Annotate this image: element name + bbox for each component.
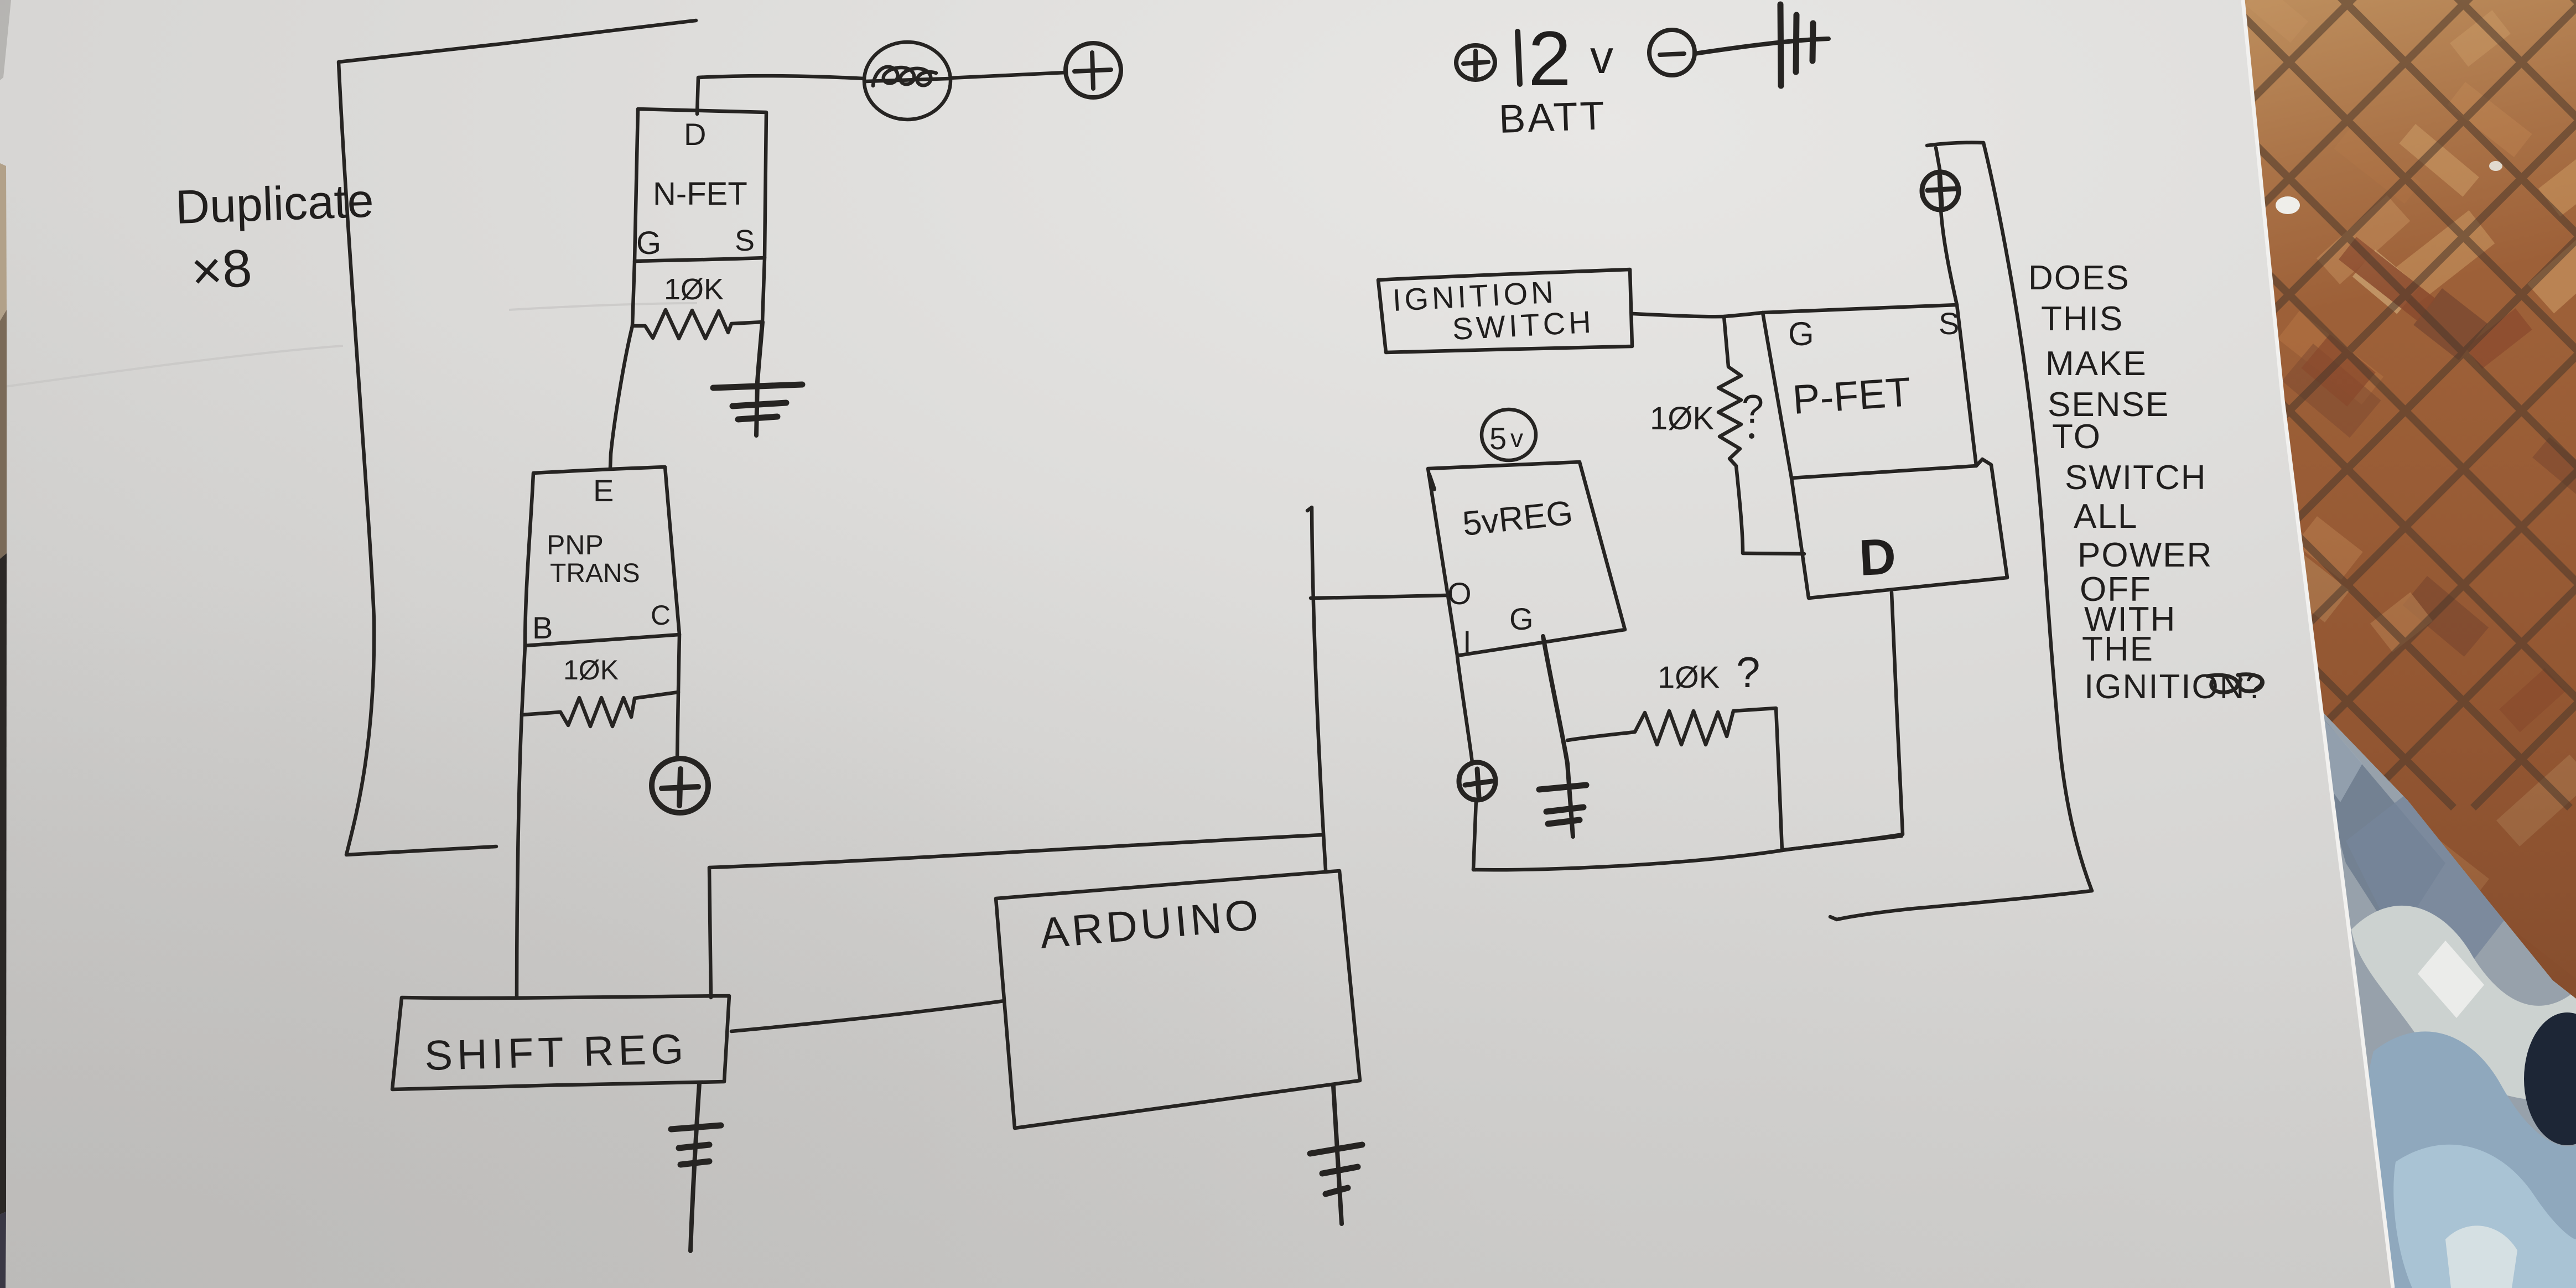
- svg-text:1ØK: 1ØK: [563, 655, 619, 685]
- shift register U1 box: [392, 996, 729, 1089]
- svg-text:S: S: [735, 224, 755, 257]
- ground (below R1): [756, 322, 762, 435]
- battery - terminal: [1649, 30, 1695, 75]
- svg-text:5: 5: [1489, 421, 1507, 456]
- svg-text:THIS: THIS: [2041, 300, 2123, 338]
- wire + node up to right rail stub: [1927, 143, 1983, 173]
- ground (below shift reg): [690, 1083, 699, 1251]
- fabric background: [2296, 686, 2576, 1288]
- brick pavement background: [1264, 0, 2576, 1011]
- resistor R4 10K? (horizontal): [1567, 708, 1782, 850]
- ignition switch box: [1378, 269, 1632, 352]
- wire source to + node: [1941, 210, 1957, 305]
- pnp transistor Q2 box: [525, 467, 679, 646]
- svg-text:SWITCH: SWITCH: [1451, 304, 1595, 346]
- svg-text:ALL: ALL: [2074, 497, 2138, 536]
- svg-text:×8: ×8: [189, 238, 254, 302]
- svg-text:I: I: [1463, 624, 1472, 659]
- svg-text:S: S: [1939, 306, 1959, 341]
- wire drain down and left: [1784, 593, 1903, 850]
- svg-text:G: G: [1788, 315, 1814, 352]
- resistor R3 10K? (vertical): [1718, 316, 1743, 553]
- svg-text:?: ?: [1742, 387, 1764, 432]
- svg-text:TO: TO: [2052, 418, 2101, 456]
- wire - to chassis ground: [1695, 39, 1829, 54]
- svg-text:C: C: [651, 600, 671, 631]
- svg-text:?: ?: [1736, 648, 1760, 697]
- svg-text:POWER: POWER: [2078, 536, 2213, 574]
- svg-text:v: v: [1510, 424, 1523, 453]
- duplicate bracket: [339, 20, 696, 855]
- p-fet Q3 box: [1763, 305, 1976, 478]
- svg-text:DOES: DOES: [2028, 259, 2130, 297]
- svg-text:THE: THE: [2082, 630, 2154, 668]
- label 12v (stroke for the 1): [1518, 32, 1520, 84]
- svg-text:N-FET: N-FET: [653, 176, 747, 212]
- paper edge highlight: [2243, 0, 2393, 1288]
- svg-text:1ØK: 1ØK: [664, 273, 724, 306]
- chassis ground (battery): [1780, 4, 1813, 86]
- wire right rail (wavy vertical): [1983, 143, 2092, 891]
- arduino U2 box: [996, 871, 1360, 1128]
- lamp M1 (coil in circle): [864, 42, 951, 120]
- node + (collector): [677, 692, 678, 759]
- svg-text:B: B: [532, 610, 553, 645]
- wire gate to emitter: [610, 326, 632, 468]
- resistor R2 10K box with zigzag: [522, 635, 679, 715]
- svg-text:P-FET: P-FET: [1791, 368, 1912, 423]
- wire drain to lamp: [697, 76, 864, 114]
- svg-text:G: G: [1509, 601, 1534, 636]
- svg-text:v: v: [1590, 31, 1613, 83]
- 5v regulator U3 box: [1428, 462, 1625, 656]
- svg-text:E: E: [593, 473, 614, 508]
- ground (below arduino): [1333, 1086, 1342, 1224]
- drain D box: [1791, 459, 2007, 598]
- svg-text:1ØK: 1ØK: [1650, 401, 1714, 437]
- left table-edge slivers: [0, 0, 11, 1288]
- node + (p-fet source, top right): [1922, 172, 1959, 210]
- resistor R1 10K box with zigzag: [632, 258, 765, 326]
- wire shift reg to arduino: [731, 1001, 1004, 1031]
- svg-text:MAKE: MAKE: [2045, 345, 2147, 383]
- svg-text:D: D: [684, 117, 706, 152]
- svg-text:1ØK: 1ØK: [1658, 659, 1720, 694]
- note text column: [2028, 259, 2266, 706]
- battery + terminal: [1456, 45, 1495, 80]
- scribble over IGNITION letters: [2208, 674, 2263, 693]
- n-fet Q1 box: [635, 109, 766, 261]
- svg-text:TRANS: TRANS: [550, 559, 640, 588]
- wire + node to bottom rail: [1473, 800, 1476, 870]
- wire bottom right rail: [1830, 891, 2092, 920]
- svg-text:Duplicate: Duplicate: [174, 174, 375, 234]
- node + (I pin): [1459, 762, 1495, 800]
- wire G pin down + ground (5vreg): [1543, 636, 1573, 837]
- svg-text:SWITCH: SWITCH: [2065, 459, 2207, 497]
- svg-text:SHIFT REG: SHIFT REG: [424, 1026, 688, 1079]
- svg-text:PNP: PNP: [547, 529, 604, 560]
- wire O pin to arduino rail: [1311, 595, 1446, 598]
- svg-text:G: G: [636, 225, 661, 261]
- wire bottom rail: [1473, 836, 1902, 870]
- svg-text:D: D: [1858, 528, 1898, 586]
- node + (lamp output): [950, 72, 1066, 78]
- wire base down to shift reg: [517, 715, 522, 997]
- wire data rail (long horizontal): [709, 835, 1322, 998]
- svg-text:O: O: [1447, 576, 1472, 611]
- svg-text:BATT: BATT: [1498, 94, 1607, 142]
- 5v node circle: [1482, 409, 1536, 460]
- wire I pin down: [1457, 657, 1472, 762]
- svg-text:2: 2: [1528, 15, 1571, 102]
- wire arduino top rail (vertical): [1307, 507, 1326, 870]
- wire ignition to p-fet gate: [1633, 313, 1763, 316]
